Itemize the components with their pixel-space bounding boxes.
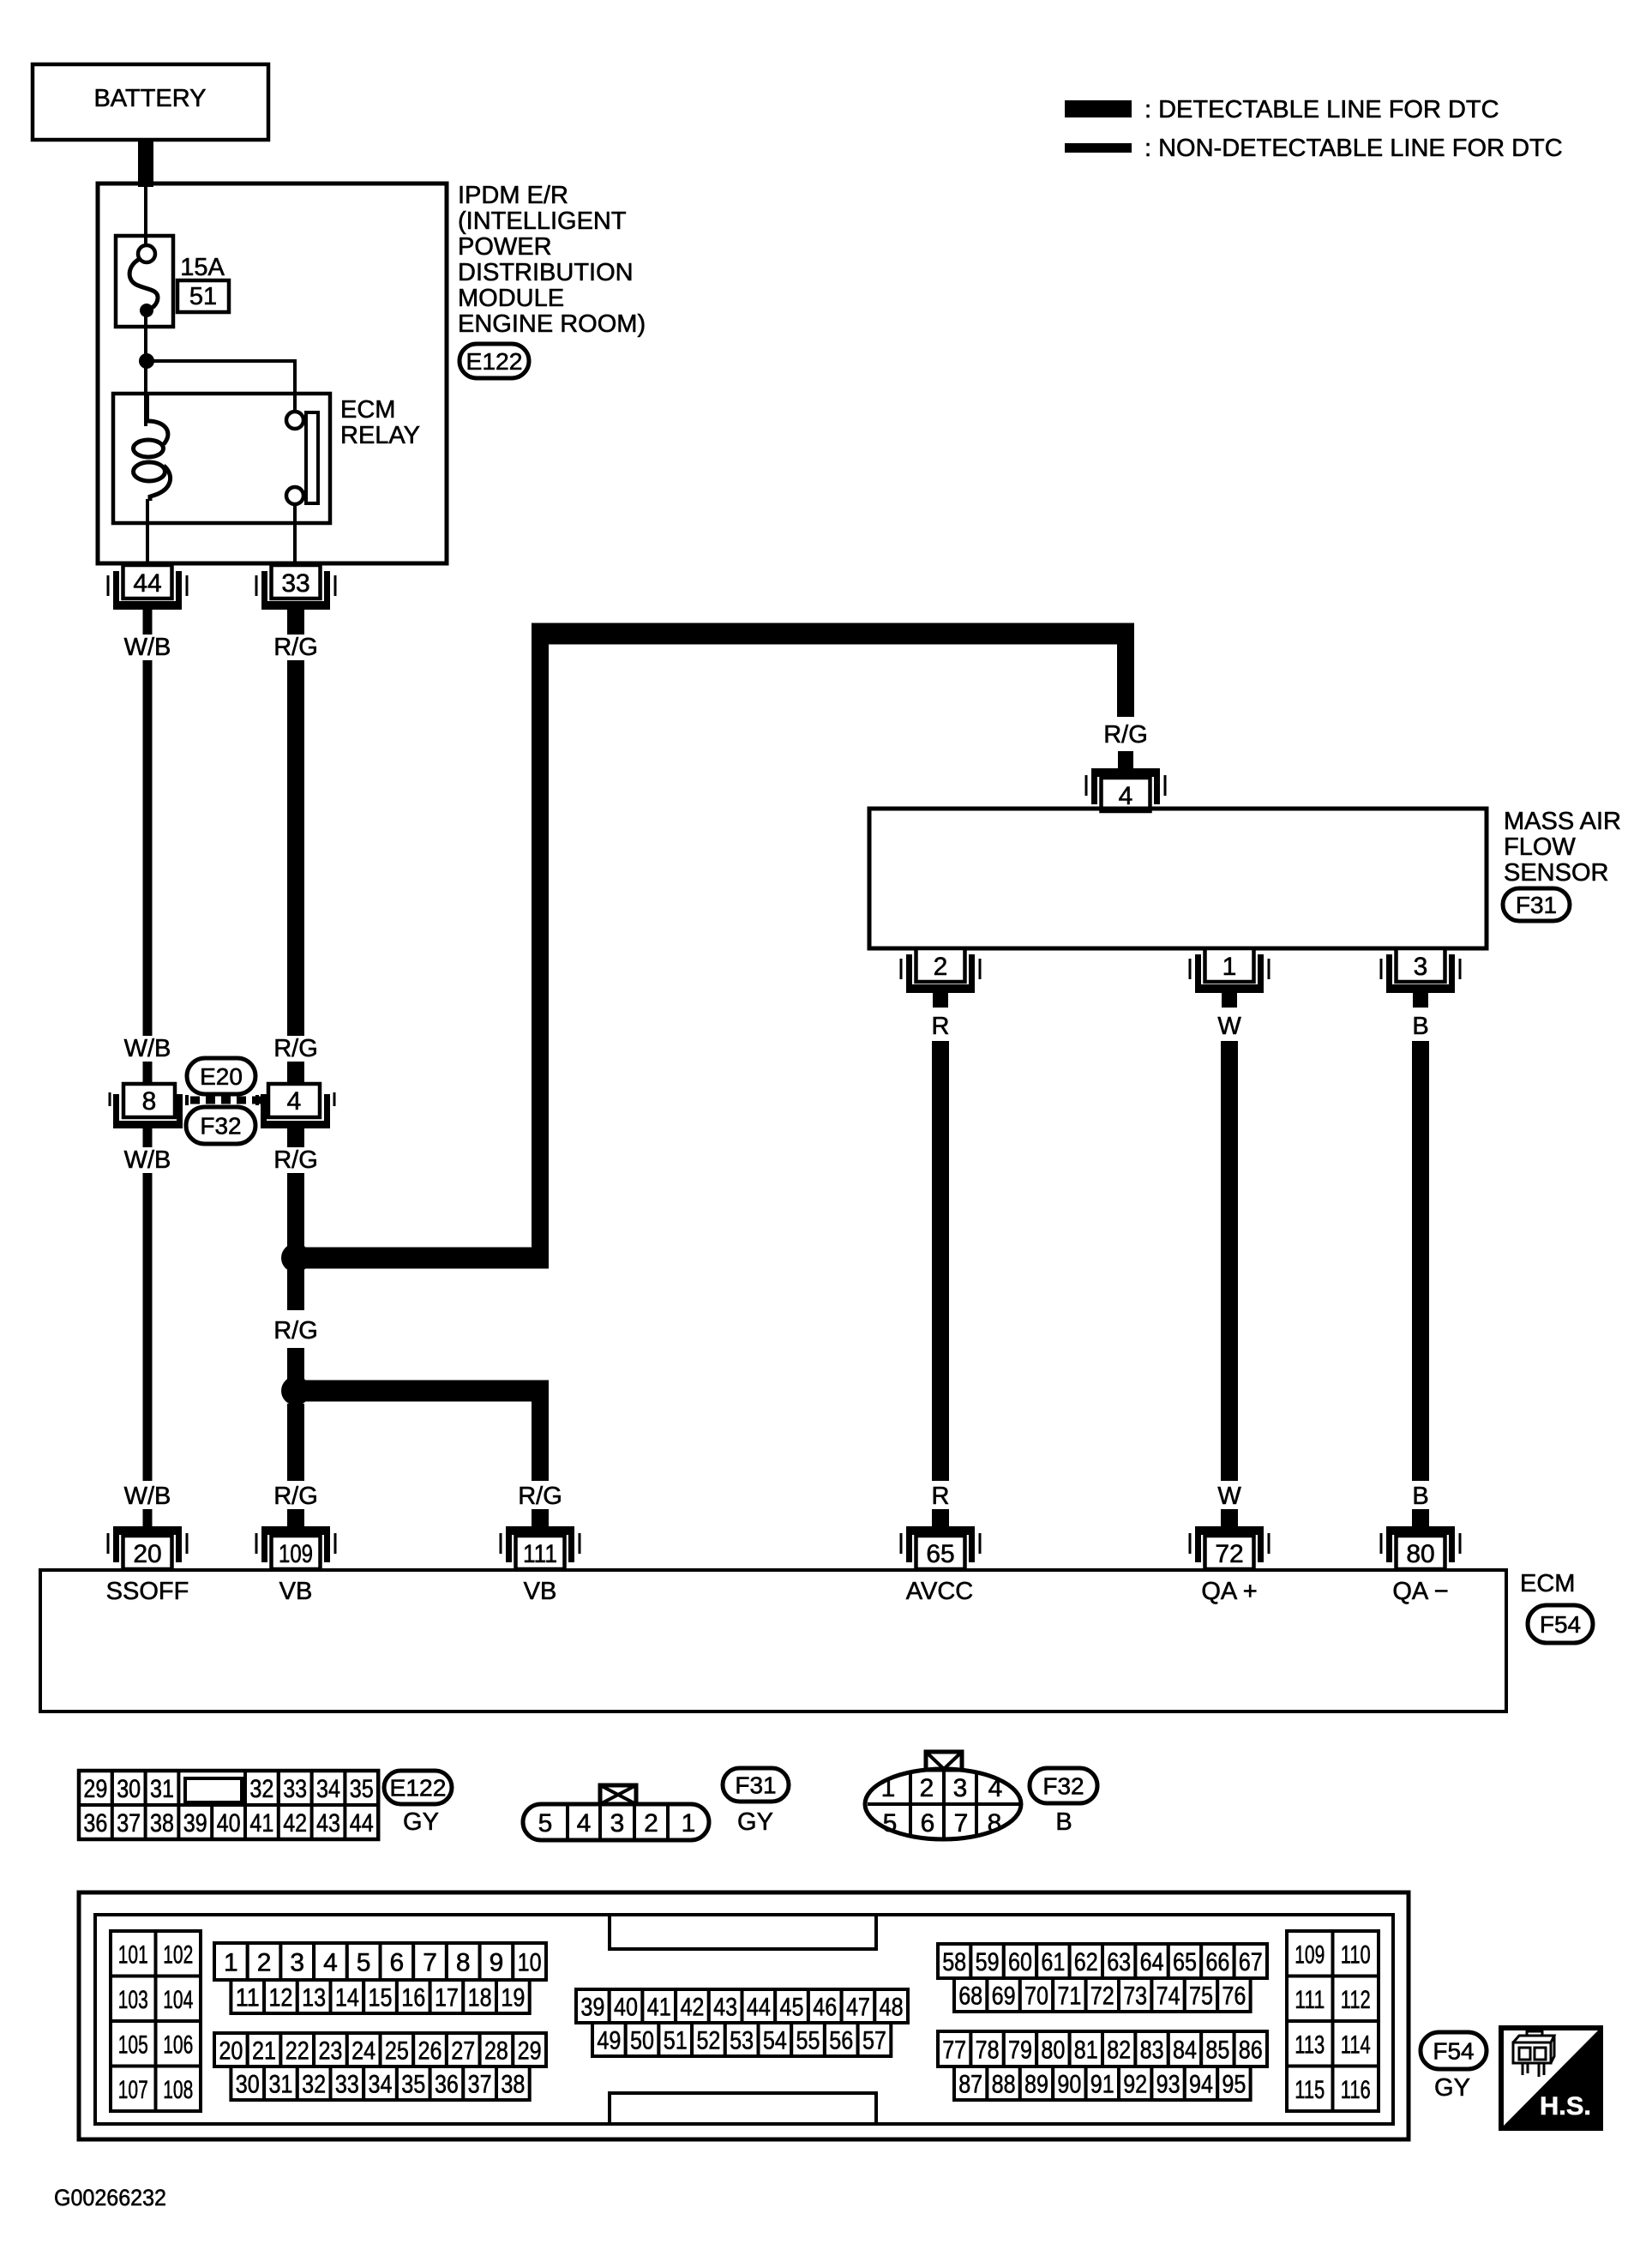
wire W/B stub into inline pin 8	[143, 1062, 153, 1086]
legend detectable line sample bar	[1065, 100, 1132, 117]
svg-text:5: 5	[538, 1809, 553, 1838]
connector oval E122	[460, 344, 529, 378]
svg-text:5: 5	[883, 1809, 898, 1838]
svg-text:83: 83	[1140, 2036, 1164, 2065]
svg-text:79: 79	[1008, 2036, 1032, 2065]
svg-text:111: 111	[523, 1540, 557, 1568]
svg-text:30: 30	[117, 1775, 141, 1803]
svg-text:44: 44	[350, 1809, 374, 1838]
svg-text:B: B	[1412, 1013, 1428, 1040]
fuse number box 51	[177, 280, 229, 312]
svg-text:8: 8	[988, 1809, 1002, 1838]
svg-text:89: 89	[1024, 2071, 1048, 2099]
ECM pin 80 connector	[1386, 1526, 1455, 1535]
wire R stub into ECM	[932, 1509, 949, 1528]
svg-text:105: 105	[118, 2030, 148, 2059]
svg-text:53: 53	[730, 2027, 754, 2055]
svg-text:65: 65	[1173, 1948, 1197, 1976]
wire R/G branch to MAF: vertical riser	[532, 624, 549, 1258]
svg-text:115: 115	[1295, 2076, 1325, 2104]
svg-text:95: 95	[1222, 2071, 1246, 2099]
svg-text:8: 8	[456, 1949, 471, 1977]
svg-text:78: 78	[976, 2036, 1000, 2065]
svg-text:E122: E122	[390, 1775, 447, 1802]
svg-text:E20: E20	[200, 1063, 243, 1090]
svg-text:104: 104	[163, 1986, 193, 2014]
svg-text:82: 82	[1107, 2036, 1131, 2065]
svg-text:85: 85	[1205, 2036, 1229, 2065]
connector oval E20	[187, 1058, 255, 1094]
svg-text:36: 36	[435, 2071, 459, 2099]
svg-text:26: 26	[418, 2037, 442, 2066]
svg-text:110: 110	[1341, 1940, 1371, 1969]
svg-text:7: 7	[954, 1809, 969, 1838]
svg-text:90: 90	[1057, 2071, 1081, 2099]
svg-text:SENSOR: SENSOR	[1504, 859, 1608, 887]
F54 grid terminals 58-67	[938, 1944, 970, 1978]
svg-text:31: 31	[150, 1775, 174, 1803]
svg-text:39: 39	[183, 1809, 207, 1838]
svg-text:17: 17	[435, 1984, 459, 2012]
wire R/G branch to ECM 111: horizontal run	[296, 1381, 549, 1402]
svg-text:: NON-DETECTABLE LINE FOR DTC: : NON-DETECTABLE LINE FOR DTC	[1144, 135, 1563, 162]
F54 grid terminals 20-29	[214, 2033, 248, 2066]
svg-text:3: 3	[953, 1774, 968, 1802]
wire R/G segment to junction	[287, 1173, 304, 1247]
junction node dot (fuse output)	[139, 353, 154, 369]
svg-text:72: 72	[1215, 1540, 1243, 1568]
svg-text:R/G: R/G	[273, 1146, 318, 1174]
wire W/B stub into ECM pin 20	[143, 1509, 153, 1528]
svg-text:11: 11	[236, 1984, 260, 2012]
svg-text:AVCC: AVCC	[906, 1578, 973, 1605]
svg-text:70: 70	[1024, 1982, 1048, 2011]
svg-text:35: 35	[350, 1775, 374, 1803]
F54 grid terminals 87-95	[954, 2066, 987, 2100]
svg-text:61: 61	[1041, 1948, 1065, 1976]
svg-text:42: 42	[680, 1994, 704, 2022]
svg-text:62: 62	[1074, 1948, 1098, 1976]
svg-text:E122: E122	[466, 348, 523, 375]
wire R/G stub into ECM pin 111	[532, 1509, 549, 1528]
wire R/G branch to MAF: horizontal run	[296, 1248, 549, 1269]
svg-text:4: 4	[988, 1774, 1003, 1802]
svg-text:92: 92	[1123, 2071, 1147, 2099]
inline connector pin 4 (E20/F32)	[268, 1084, 320, 1117]
svg-text:80: 80	[1041, 2036, 1065, 2065]
svg-text:1: 1	[224, 1949, 238, 1977]
svg-text:GY: GY	[737, 1808, 773, 1836]
svg-text:R/G: R/G	[273, 634, 318, 661]
wire W/B long segment	[143, 660, 153, 1036]
svg-text:106: 106	[163, 2030, 193, 2059]
legend non-detectable line sample bar	[1065, 143, 1132, 153]
relay contact	[286, 412, 303, 429]
svg-text:41: 41	[249, 1809, 273, 1838]
svg-text:35: 35	[401, 2071, 425, 2099]
svg-text:2: 2	[920, 1774, 934, 1802]
svg-text:103: 103	[118, 1986, 148, 2014]
svg-text:44: 44	[747, 1994, 771, 2022]
svg-text:51: 51	[189, 283, 217, 310]
svg-text:10: 10	[518, 1949, 542, 1977]
F54 pinout bottom notch	[610, 2093, 876, 2122]
svg-text:4: 4	[577, 1809, 592, 1838]
IPDM E/R module box E122	[98, 183, 447, 563]
svg-text:52: 52	[696, 2027, 720, 2055]
svg-text:49: 49	[597, 2027, 621, 2055]
wire R stub below MAF pin	[933, 993, 948, 1008]
svg-text:R/G: R/G	[273, 1035, 318, 1062]
E122 key slot	[185, 1778, 242, 1802]
svg-text:QA −: QA −	[1392, 1578, 1448, 1605]
wire R/G stub below inline pin 4	[287, 1128, 304, 1147]
svg-text:6: 6	[921, 1809, 935, 1838]
MAF pin 2 connector	[906, 984, 975, 993]
svg-text:ECM: ECM	[340, 396, 395, 424]
svg-text:20: 20	[219, 2037, 243, 2066]
svg-text:109: 109	[279, 1540, 313, 1568]
F54 grid terminals 30-38	[231, 2066, 264, 2100]
svg-text:47: 47	[846, 1994, 870, 2022]
svg-text:1: 1	[682, 1809, 696, 1838]
connector face F32 oval grid	[865, 1769, 1021, 1839]
svg-text:R/G: R/G	[518, 1483, 562, 1510]
svg-text:18: 18	[468, 1984, 492, 2012]
svg-text:38: 38	[501, 2071, 525, 2099]
svg-text:3: 3	[290, 1949, 304, 1977]
svg-text:1: 1	[1222, 953, 1237, 981]
connector oval F54 (at ECM)	[1528, 1605, 1593, 1643]
svg-text:59: 59	[976, 1948, 1000, 1976]
svg-text:44: 44	[133, 569, 161, 598]
svg-text:74: 74	[1156, 1982, 1180, 2011]
svg-text:GY: GY	[403, 1808, 439, 1836]
wire B stub below MAF pin	[1413, 993, 1428, 1008]
F54 grid terminals 11-19	[231, 1980, 264, 2013]
svg-text:IPDM E/R: IPDM E/R	[458, 182, 568, 209]
svg-text:7: 7	[423, 1949, 437, 1977]
fuse 15A box	[116, 236, 173, 327]
svg-text:14: 14	[335, 1984, 359, 2012]
svg-text:107: 107	[118, 2076, 148, 2104]
ECM connector F54 pinout outer box	[79, 1892, 1409, 2139]
wire W/B stub below inline pin 8	[143, 1128, 153, 1147]
wire R long segment	[932, 1041, 949, 1481]
F54 grid terminals 68-76	[954, 1978, 987, 2012]
svg-text:QA +: QA +	[1201, 1578, 1257, 1605]
svg-text:54: 54	[763, 2027, 787, 2055]
ECM pin 20 connector	[113, 1526, 182, 1535]
ECM pin 111 connector	[506, 1526, 574, 1535]
svg-text:F31: F31	[735, 1772, 776, 1799]
svg-text:R/G: R/G	[1103, 721, 1148, 749]
svg-text:37: 37	[468, 2071, 492, 2099]
wire W long segment	[1221, 1041, 1238, 1481]
svg-text:112: 112	[1341, 1986, 1371, 2014]
svg-text:25: 25	[385, 2037, 409, 2066]
svg-text:B: B	[1055, 1808, 1072, 1836]
wire battery to IPDM E/R (thick)	[138, 140, 153, 187]
svg-text:F32: F32	[1042, 1773, 1084, 1800]
ECM connector F54 pinout inner box	[95, 1915, 1393, 2124]
svg-text:SSOFF: SSOFF	[106, 1578, 189, 1605]
F31 key (box with X)	[600, 1785, 636, 1804]
fuse element symbol	[138, 245, 155, 262]
connector oval F32 (inline)	[186, 1107, 255, 1144]
svg-text:75: 75	[1189, 1982, 1213, 2011]
svg-text:76: 76	[1222, 1982, 1246, 2011]
ECM relay box	[113, 394, 330, 523]
svg-text:41: 41	[647, 1994, 671, 2022]
svg-text:3: 3	[1414, 953, 1428, 981]
svg-text:6: 6	[390, 1949, 405, 1977]
svg-text:F31: F31	[1516, 892, 1557, 918]
F54 grid terminals 49-57	[592, 2023, 626, 2056]
svg-text:58: 58	[942, 1948, 966, 1976]
IPDM pin 44 connector	[113, 601, 182, 610]
svg-text:W/B: W/B	[124, 1483, 171, 1510]
svg-text:MODULE: MODULE	[458, 285, 564, 312]
svg-text:R/G: R/G	[273, 1317, 318, 1345]
svg-text:2: 2	[644, 1809, 658, 1838]
svg-text:W/B: W/B	[124, 1035, 171, 1062]
svg-text:30: 30	[236, 2071, 260, 2099]
svg-text:F54: F54	[1433, 2038, 1474, 2065]
svg-text:W: W	[1217, 1483, 1241, 1510]
ECM pin 109 connector	[261, 1526, 330, 1535]
svg-text:FLOW: FLOW	[1504, 833, 1576, 861]
MAF pin 4 connector	[1091, 768, 1160, 777]
svg-text:VB: VB	[524, 1578, 557, 1605]
svg-text:63: 63	[1107, 1948, 1131, 1976]
svg-text:W: W	[1217, 1013, 1241, 1040]
svg-text:23: 23	[318, 2037, 342, 2066]
wire W/B stub below pin 44	[143, 610, 153, 635]
svg-text:87: 87	[958, 2071, 982, 2099]
ECM pin 65 connector	[906, 1526, 975, 1535]
svg-text:4: 4	[287, 1087, 302, 1116]
svg-text:51: 51	[664, 2027, 688, 2055]
battery box	[33, 64, 268, 140]
svg-text:22: 22	[285, 2037, 309, 2066]
svg-text:73: 73	[1123, 1982, 1147, 2011]
IPDM pin 33 connector	[261, 601, 330, 610]
svg-text:32: 32	[302, 2071, 326, 2099]
svg-text:84: 84	[1173, 2036, 1197, 2065]
svg-text:: DETECTABLE LINE FOR DTC: : DETECTABLE LINE FOR DTC	[1144, 96, 1499, 123]
svg-text:43: 43	[713, 1994, 737, 2022]
F54 grid terminals 77-86	[938, 2031, 970, 2066]
svg-text:27: 27	[451, 2037, 475, 2066]
harness symbol H.S. badge	[1501, 2028, 1601, 2128]
ECM box	[40, 1570, 1506, 1712]
F54 grid terminals 1-10	[214, 1943, 248, 1980]
inline connector pin 8 (E20/F32)	[123, 1084, 175, 1117]
svg-text:BATTERY: BATTERY	[93, 85, 206, 112]
connector oval E122 (pinout)	[384, 1771, 452, 1804]
svg-text:67: 67	[1239, 1948, 1263, 1976]
svg-text:MASS AIR: MASS AIR	[1504, 808, 1621, 835]
svg-text:ECM: ECM	[1520, 1570, 1575, 1597]
svg-text:29: 29	[518, 2037, 542, 2066]
wire R/G lower segment to ECM 109	[287, 1404, 304, 1481]
svg-text:R: R	[932, 1013, 950, 1040]
svg-text:29: 29	[83, 1775, 107, 1803]
wire relay contact to pin 33	[293, 504, 297, 568]
svg-text:20: 20	[133, 1540, 161, 1568]
wire W stub into ECM	[1221, 1509, 1238, 1528]
svg-text:W/B: W/B	[124, 1146, 171, 1174]
svg-text:G00266232: G00266232	[54, 2185, 166, 2211]
svg-text:94: 94	[1189, 2071, 1213, 2099]
svg-text:57: 57	[862, 2027, 886, 2055]
svg-text:1: 1	[881, 1774, 896, 1802]
svg-text:37: 37	[117, 1809, 141, 1838]
wire R/G segment between junctions	[287, 1270, 304, 1310]
svg-text:33: 33	[283, 1775, 307, 1803]
svg-text:114: 114	[1341, 2030, 1371, 2059]
F54 grid terminals 101-108	[111, 1931, 156, 1976]
svg-text:34: 34	[316, 1775, 340, 1803]
svg-text:48: 48	[880, 1994, 904, 2022]
svg-text:15: 15	[369, 1984, 393, 2012]
connector oval F31 (pinout)	[723, 1768, 789, 1802]
svg-text:21: 21	[252, 2037, 276, 2066]
svg-text:64: 64	[1140, 1948, 1164, 1976]
junction node dot (R/G to MAF feed)	[281, 1243, 310, 1272]
svg-text:2: 2	[257, 1949, 272, 1977]
MAF pin 3 connector	[1386, 984, 1455, 993]
svg-text:B: B	[1412, 1483, 1428, 1510]
wire W/B lower segment	[143, 1173, 153, 1481]
svg-text:DISTRIBUTION: DISTRIBUTION	[458, 259, 634, 286]
wire IPDM top edge to fuse	[144, 185, 147, 247]
svg-text:8: 8	[142, 1087, 157, 1116]
wire B stub into ECM	[1412, 1509, 1429, 1528]
F54 grid terminals 39-48	[576, 1989, 610, 2023]
wire W stub below MAF pin	[1222, 993, 1237, 1008]
wire fuse to junction node	[144, 314, 147, 364]
ECM pin 72 connector	[1195, 1526, 1264, 1535]
junction node dot (R/G to ECM 111 feed)	[281, 1376, 310, 1405]
svg-text:12: 12	[268, 1984, 292, 2012]
connector face F31 pin row	[523, 1804, 709, 1840]
svg-text:4: 4	[1119, 782, 1133, 810]
wire R/G stub into ECM pin 109	[287, 1509, 304, 1528]
svg-text:9: 9	[490, 1949, 504, 1977]
wire junction to relay coil	[144, 361, 147, 426]
F32 key (box with V)	[926, 1752, 962, 1770]
svg-text:POWER: POWER	[458, 233, 552, 261]
svg-text:86: 86	[1239, 2036, 1263, 2065]
svg-text:108: 108	[163, 2076, 193, 2104]
svg-text:102: 102	[163, 1940, 193, 1969]
svg-text:GY: GY	[1434, 2074, 1470, 2102]
svg-text:65: 65	[926, 1540, 954, 1568]
svg-text:109: 109	[1295, 1940, 1325, 1969]
svg-text:34: 34	[369, 2071, 393, 2099]
wire R/G long segment	[287, 660, 304, 1036]
svg-text:81: 81	[1074, 2036, 1098, 2065]
svg-text:4: 4	[323, 1949, 338, 1977]
wire R/G stub below pin 33	[287, 610, 304, 635]
svg-text:69: 69	[992, 1982, 1016, 2011]
svg-text:36: 36	[83, 1809, 107, 1838]
svg-text:46: 46	[813, 1994, 837, 2022]
svg-text:66: 66	[1205, 1948, 1229, 1976]
svg-text:31: 31	[268, 2071, 292, 2099]
svg-text:45: 45	[780, 1994, 804, 2022]
svg-text:68: 68	[958, 1982, 982, 2011]
MAF pin 1 connector	[1195, 984, 1264, 993]
svg-text:40: 40	[217, 1809, 241, 1838]
svg-text:60: 60	[1008, 1948, 1032, 1976]
connector oval F32 (pinout)	[1030, 1768, 1097, 1803]
svg-text:W/B: W/B	[124, 634, 171, 661]
svg-text:42: 42	[283, 1809, 307, 1838]
svg-text:50: 50	[630, 2027, 654, 2055]
svg-text:ENGINE ROOM): ENGINE ROOM)	[458, 310, 646, 338]
svg-text:101: 101	[118, 1940, 148, 1969]
svg-text:72: 72	[1090, 1982, 1114, 2011]
svg-text:55: 55	[796, 2027, 820, 2055]
svg-text:93: 93	[1156, 2071, 1180, 2099]
relay coil	[146, 394, 149, 421]
wire R/G stub into inline pin 4	[287, 1062, 304, 1086]
svg-text:5: 5	[357, 1949, 371, 1977]
svg-text:88: 88	[992, 2071, 1016, 2099]
wire relay coil to pin 44	[146, 499, 149, 568]
svg-text:16: 16	[401, 1984, 425, 2012]
svg-text:R: R	[932, 1483, 950, 1510]
connector oval F31 (at MAF)	[1503, 888, 1570, 921]
svg-text:F32: F32	[200, 1113, 241, 1140]
svg-text:RELAY: RELAY	[340, 422, 420, 449]
wire R/G branch to ECM 111: vertical drop	[532, 1391, 549, 1481]
svg-text:116: 116	[1341, 2076, 1371, 2104]
svg-text:R/G: R/G	[273, 1483, 318, 1510]
svg-text:32: 32	[249, 1775, 273, 1803]
svg-text:F54: F54	[1540, 1611, 1581, 1638]
svg-text:111: 111	[1295, 1986, 1325, 2014]
svg-text:15A: 15A	[180, 254, 225, 281]
svg-text:43: 43	[316, 1809, 340, 1838]
svg-text:24: 24	[351, 2037, 375, 2066]
svg-text:80: 80	[1406, 1540, 1434, 1568]
svg-text:113: 113	[1295, 2030, 1325, 2059]
svg-text:71: 71	[1057, 1982, 1081, 2011]
svg-text:91: 91	[1090, 2071, 1114, 2099]
svg-text:VB: VB	[279, 1578, 313, 1605]
svg-text:19: 19	[501, 1984, 525, 2012]
F54 pinout top notch	[610, 1916, 876, 1949]
svg-text:28: 28	[484, 2037, 508, 2066]
svg-text:33: 33	[281, 569, 309, 598]
wire R/G branch to MAF: top horizontal run	[532, 623, 1134, 645]
svg-text:13: 13	[302, 1984, 326, 2012]
wire B long segment	[1412, 1041, 1429, 1481]
svg-text:H.S.: H.S.	[1540, 2092, 1591, 2121]
svg-text:39: 39	[580, 1994, 604, 2022]
svg-text:40: 40	[614, 1994, 638, 2022]
svg-text:33: 33	[335, 2071, 359, 2099]
svg-text:(INTELLIGENT: (INTELLIGENT	[458, 208, 627, 235]
wire R/G branch to MAF: drop to pin 4	[1117, 634, 1134, 717]
svg-text:38: 38	[150, 1809, 174, 1838]
connector oval F54 (pinout)	[1421, 2032, 1487, 2069]
dashed connector separation line	[190, 1097, 262, 1104]
